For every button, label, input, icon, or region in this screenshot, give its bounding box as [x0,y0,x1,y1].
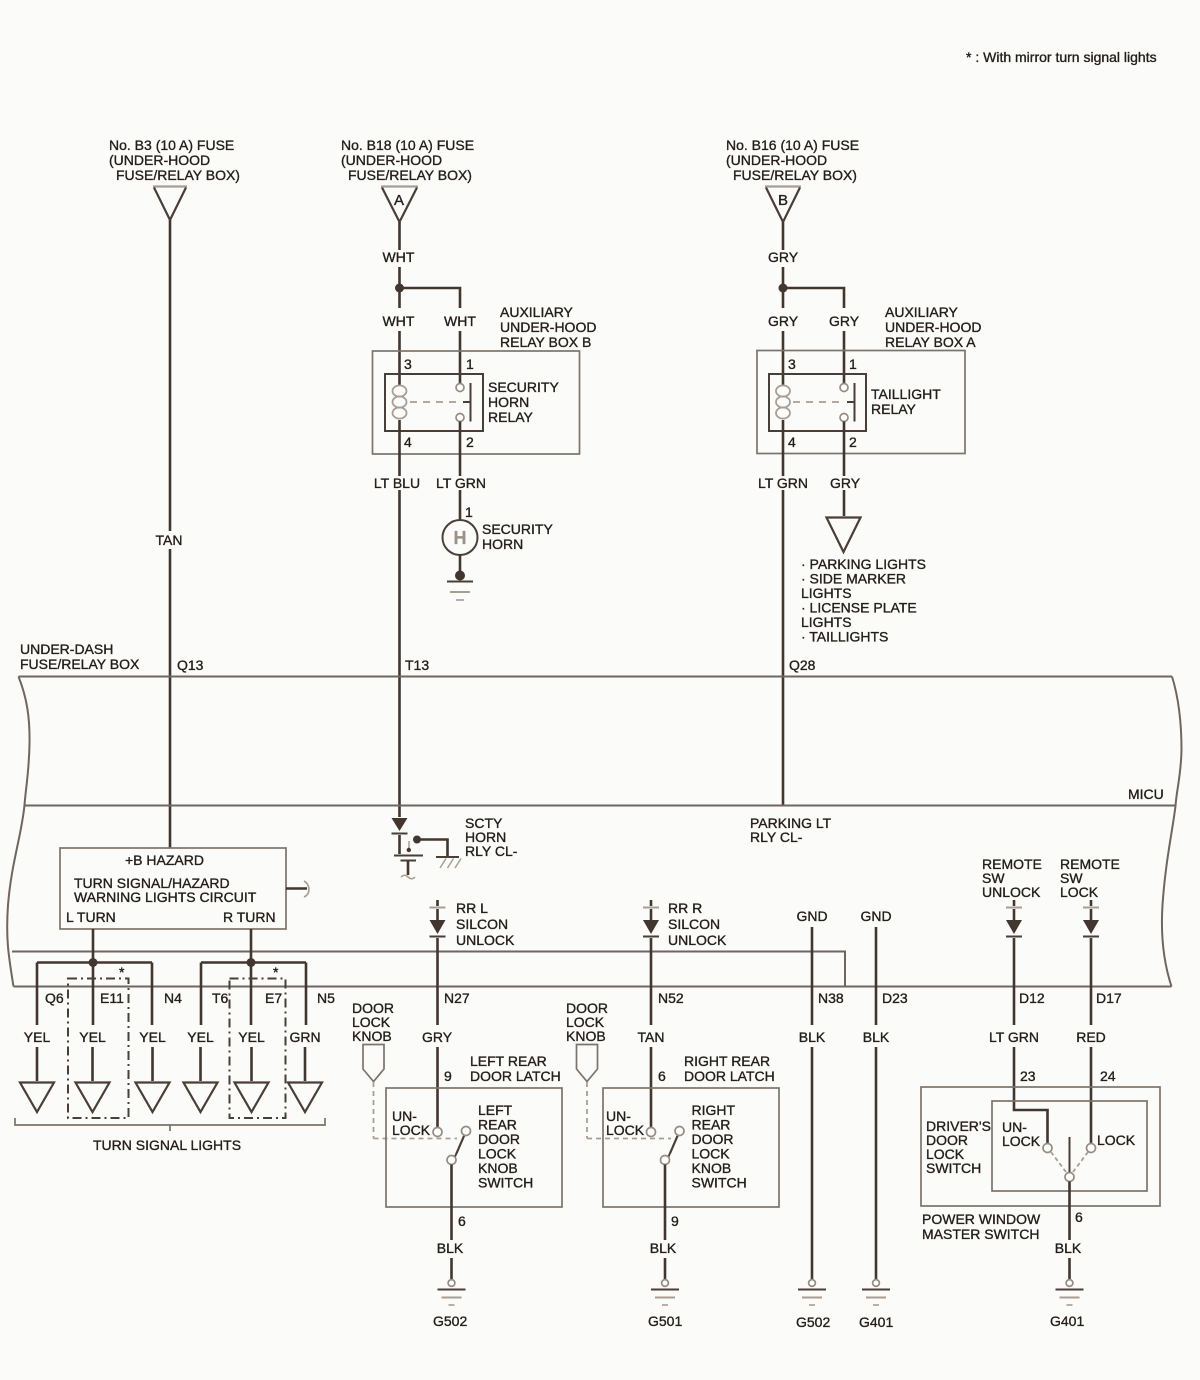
svg-text:· TAILLIGHTS: · TAILLIGHTS [801,629,888,645]
svg-text:RLY CL-: RLY CL- [750,829,803,845]
svg-text:RELAY: RELAY [871,401,917,417]
svg-text:G502: G502 [433,1313,467,1329]
svg-text:G501: G501 [648,1313,682,1329]
svg-text:AUXILIARY: AUXILIARY [885,304,959,320]
svg-text:Q6: Q6 [45,990,64,1006]
svg-text:N4: N4 [164,990,182,1006]
svg-text:SILCON: SILCON [668,916,720,932]
svg-text:YEL: YEL [24,1029,51,1045]
svg-text:DOOR LATCH: DOOR LATCH [470,1068,561,1084]
svg-text:N52: N52 [658,990,684,1006]
svg-text:LOCK: LOCK [606,1122,645,1138]
svg-text:TAILLIGHT: TAILLIGHT [871,386,941,402]
svg-text:No. B3 (10 A) FUSE: No. B3 (10 A) FUSE [109,137,234,153]
svg-text:WHT: WHT [383,249,415,265]
svg-text:RLY CL-: RLY CL- [465,843,518,859]
svg-text:9: 9 [671,1213,679,1229]
svg-text:SECURITY: SECURITY [488,379,559,395]
svg-text:1: 1 [465,504,473,520]
svg-text:B: B [778,192,788,209]
svg-text:* : With mirror turn signal li: * : With mirror turn signal lights [966,49,1157,65]
svg-text:2: 2 [849,434,857,450]
svg-text:23: 23 [1020,1068,1036,1084]
svg-text:L TURN: L TURN [66,909,116,925]
svg-text:+B HAZARD: +B HAZARD [125,852,204,868]
svg-text:MICU: MICU [1128,786,1164,802]
svg-text:Q13: Q13 [177,657,204,673]
svg-text:UNLOCK: UNLOCK [982,884,1041,900]
svg-text:(UNDER-HOOD: (UNDER-HOOD [726,152,827,168]
svg-text:FUSE/RELAY BOX: FUSE/RELAY BOX [20,656,140,672]
svg-text:SWITCH: SWITCH [692,1175,747,1191]
svg-text:LT GRN: LT GRN [758,475,808,491]
svg-text:FUSE/RELAY BOX): FUSE/RELAY BOX) [116,167,240,183]
svg-text:1: 1 [466,356,474,372]
svg-text:POWER WINDOW: POWER WINDOW [922,1211,1041,1227]
svg-text:No. B18 (10 A) FUSE: No. B18 (10 A) FUSE [341,137,474,153]
svg-text:RR R: RR R [668,900,702,916]
svg-text:6: 6 [658,1068,666,1084]
svg-text:TAN: TAN [638,1029,665,1045]
svg-text:*: * [273,964,279,980]
svg-text:GND: GND [796,908,827,924]
svg-text:A: A [394,192,404,209]
svg-text:AUXILIARY: AUXILIARY [500,304,574,320]
svg-text:SILCON: SILCON [456,916,508,932]
svg-text:YEL: YEL [139,1029,166,1045]
svg-text:KNOB: KNOB [352,1028,392,1044]
svg-text:KNOB: KNOB [566,1028,606,1044]
svg-text:4: 4 [788,434,796,450]
svg-text:MASTER SWITCH: MASTER SWITCH [922,1226,1039,1242]
svg-text:6: 6 [458,1213,466,1229]
svg-text:UNDER-DASH: UNDER-DASH [20,641,113,657]
svg-text:D17: D17 [1096,990,1122,1006]
svg-text:9: 9 [444,1068,452,1084]
svg-text:G401: G401 [859,1314,893,1330]
svg-text:BLK: BLK [437,1240,464,1256]
svg-text:No. B16 (10 A) FUSE: No. B16 (10 A) FUSE [726,137,859,153]
svg-text:E7: E7 [265,990,282,1006]
svg-text:3: 3 [404,356,412,372]
svg-text:FUSE/RELAY BOX): FUSE/RELAY BOX) [348,167,472,183]
svg-text:LOCK: LOCK [1060,884,1099,900]
svg-text:LEFT REAR: LEFT REAR [470,1053,547,1069]
svg-text:BLK: BLK [863,1029,890,1045]
svg-text:BLK: BLK [650,1240,677,1256]
svg-text:RED: RED [1076,1029,1106,1045]
svg-text:YEL: YEL [187,1029,214,1045]
svg-text:UNLOCK: UNLOCK [456,932,515,948]
svg-text:D12: D12 [1019,990,1045,1006]
svg-text:N5: N5 [317,990,335,1006]
svg-text:E11: E11 [100,990,124,1006]
svg-text:BLK: BLK [1055,1240,1082,1256]
svg-text:SWITCH: SWITCH [478,1175,533,1191]
svg-text:RELAY: RELAY [488,409,534,425]
svg-text:3: 3 [788,356,796,372]
svg-text:R TURN: R TURN [223,909,276,925]
svg-text:SWITCH: SWITCH [926,1160,981,1176]
svg-text:6: 6 [1075,1209,1083,1225]
svg-text:HORN: HORN [482,536,523,552]
svg-text:T6: T6 [212,990,229,1006]
svg-text:UNDER-HOOD: UNDER-HOOD [500,319,596,335]
svg-text:DOOR LATCH: DOOR LATCH [684,1068,775,1084]
svg-text:TAN: TAN [156,532,183,548]
svg-text:4: 4 [404,434,412,450]
svg-text:LOCK: LOCK [1002,1133,1041,1149]
svg-text:LOCK: LOCK [1097,1132,1136,1148]
svg-text:RELAY BOX B: RELAY BOX B [500,334,591,350]
svg-text:(UNDER-HOOD: (UNDER-HOOD [341,152,442,168]
svg-text:WHT: WHT [383,313,415,329]
svg-text:RELAY BOX A: RELAY BOX A [885,334,976,350]
svg-text:UNLOCK: UNLOCK [668,932,727,948]
svg-text:GRY: GRY [768,249,799,265]
svg-text:WHT: WHT [444,313,476,329]
svg-text:GND: GND [860,908,891,924]
svg-text:YEL: YEL [79,1029,106,1045]
svg-text:RR L: RR L [456,900,488,916]
svg-text:1: 1 [849,356,857,372]
svg-text:N27: N27 [444,990,470,1006]
svg-text:HORN: HORN [488,394,529,410]
svg-text:*: * [119,964,125,980]
svg-text:GRN: GRN [289,1029,320,1045]
svg-text:G401: G401 [1050,1313,1084,1329]
svg-text:UNDER-HOOD: UNDER-HOOD [885,319,981,335]
svg-text:H: H [454,528,467,548]
svg-text:FUSE/RELAY BOX): FUSE/RELAY BOX) [733,167,857,183]
svg-text:T13: T13 [405,657,429,673]
svg-text:24: 24 [1100,1068,1116,1084]
svg-text:LT BLU: LT BLU [374,475,420,491]
svg-text:G502: G502 [796,1314,830,1330]
svg-text:RIGHT REAR: RIGHT REAR [684,1053,770,1069]
svg-text:GRY: GRY [768,313,799,329]
svg-text:SECURITY: SECURITY [482,521,553,537]
svg-text:LT GRN: LT GRN [989,1029,1039,1045]
svg-text:Q28: Q28 [789,657,816,673]
svg-text:WARNING LIGHTS CIRCUIT: WARNING LIGHTS CIRCUIT [74,889,257,905]
svg-text:D23: D23 [882,990,908,1006]
svg-text:GRY: GRY [422,1029,453,1045]
svg-text:YEL: YEL [238,1029,265,1045]
svg-text:LOCK: LOCK [392,1122,431,1138]
svg-text:LT GRN: LT GRN [436,475,486,491]
svg-text:N38: N38 [818,990,844,1006]
svg-text:GRY: GRY [829,313,860,329]
svg-text:GRY: GRY [830,475,861,491]
svg-text:(UNDER-HOOD: (UNDER-HOOD [109,152,210,168]
svg-text:BLK: BLK [799,1029,826,1045]
svg-text:TURN SIGNAL LIGHTS: TURN SIGNAL LIGHTS [93,1137,241,1153]
svg-text:2: 2 [466,434,474,450]
